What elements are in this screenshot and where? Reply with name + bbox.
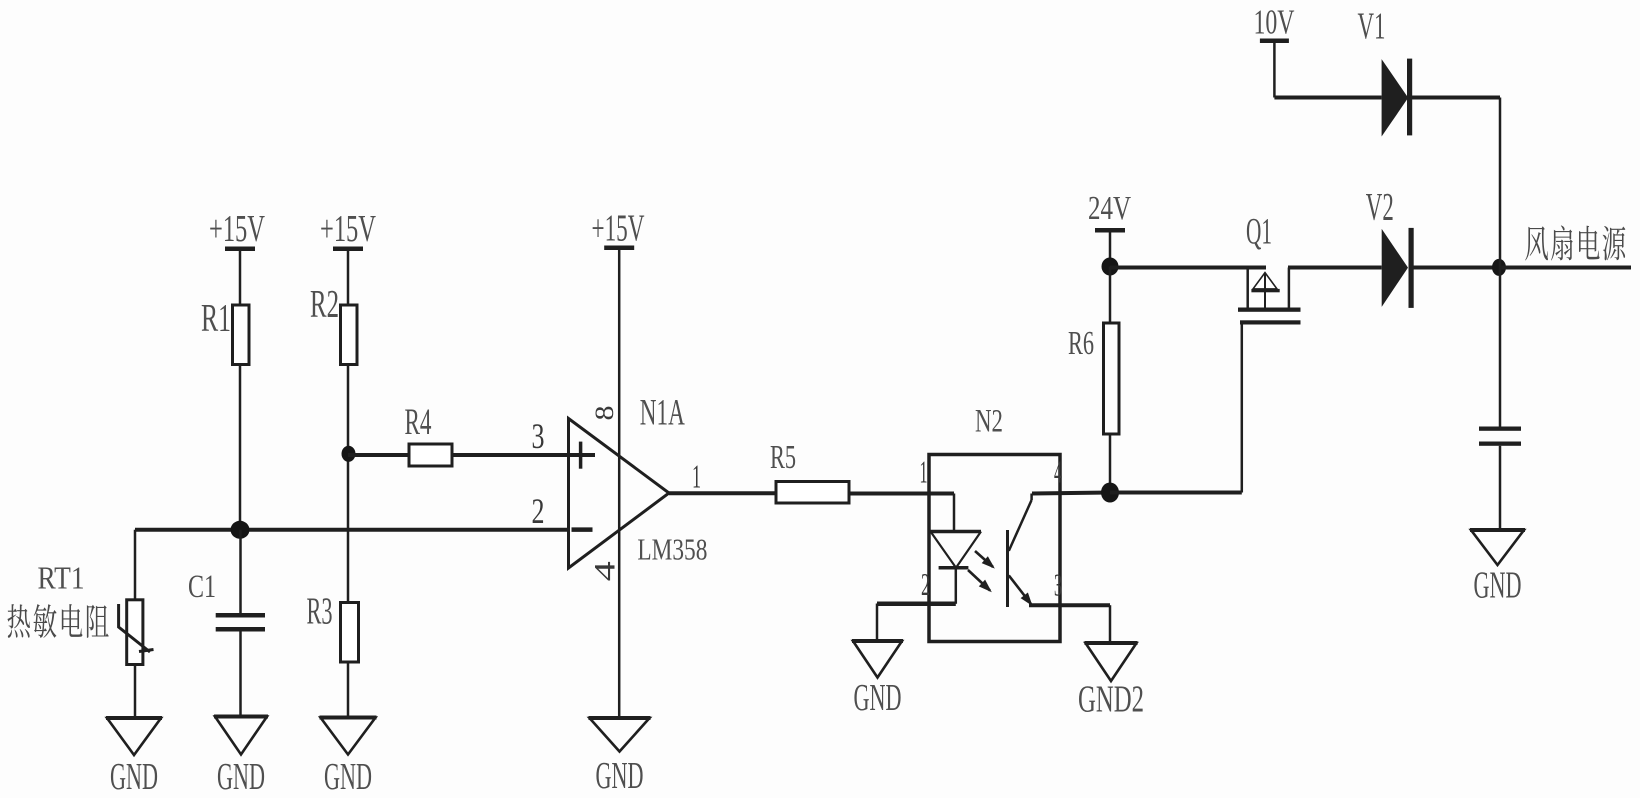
svg-text:GND: GND — [596, 755, 644, 797]
svg-text:2: 2 — [921, 566, 930, 602]
svg-text:3: 3 — [532, 416, 545, 456]
svg-text:V1: V1 — [1358, 6, 1386, 48]
svg-text:2: 2 — [532, 491, 545, 531]
svg-text:N2: N2 — [975, 404, 1003, 440]
svg-text:+15V: +15V — [320, 208, 376, 250]
svg-text:C1: C1 — [188, 569, 216, 605]
svg-text:1: 1 — [692, 459, 701, 496]
svg-text:4: 4 — [1054, 454, 1062, 490]
svg-text:R5: R5 — [770, 439, 796, 476]
svg-text:1: 1 — [920, 454, 928, 490]
svg-text:R2: R2 — [310, 283, 339, 326]
svg-text:10V: 10V — [1254, 3, 1295, 42]
svg-text:R4: R4 — [405, 402, 432, 443]
svg-text:RT1: RT1 — [38, 560, 85, 596]
svg-text:V2: V2 — [1366, 186, 1394, 229]
svg-text:GND: GND — [1474, 565, 1522, 607]
svg-text:+15V: +15V — [592, 208, 645, 250]
svg-text:GND: GND — [110, 756, 158, 798]
svg-text:+15V: +15V — [209, 208, 265, 250]
svg-text:GND2: GND2 — [1078, 679, 1144, 721]
svg-text:R3: R3 — [307, 591, 333, 633]
svg-text:24V: 24V — [1088, 190, 1131, 227]
svg-text:GND: GND — [324, 756, 372, 798]
svg-text:R1: R1 — [201, 297, 231, 340]
svg-text:R6: R6 — [1068, 325, 1094, 362]
svg-text:4: 4 — [589, 561, 622, 581]
svg-text:3: 3 — [1054, 567, 1062, 603]
svg-text:N1A: N1A — [640, 393, 685, 434]
svg-text:8: 8 — [590, 406, 619, 421]
svg-text:LM358: LM358 — [637, 532, 707, 567]
svg-text:GND: GND — [854, 677, 902, 719]
svg-text:GND: GND — [217, 756, 265, 798]
svg-text:Q1: Q1 — [1246, 212, 1272, 253]
